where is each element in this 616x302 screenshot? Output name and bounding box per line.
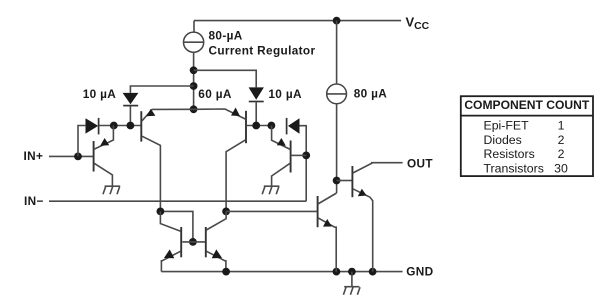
svg-text:Diodes: Diodes [484,133,522,147]
wire IN- line [49,200,306,202]
component count table [461,96,593,176]
svg-text:2: 2 [558,147,565,161]
wire regulator output vertical [193,52,195,109]
node H [302,152,310,160]
node I [333,177,341,185]
node D [110,122,118,130]
svg-text:Current Regulator: Current Regulator [209,43,316,57]
svg-text:1: 1 [558,119,565,133]
node E [126,122,134,130]
node G [268,122,276,130]
transistor Q5 (mirror left NPN) [180,227,182,257]
node center C (60uA) [190,105,198,113]
svg-text:VCC: VCC [406,14,430,32]
svg-text:80-µA: 80-µA [209,28,243,42]
svg-text:COMPONENT COUNT: COMPONENT COUNT [464,98,590,112]
wire mirror left top [160,211,193,242]
wire right base row [246,125,271,127]
node on VCC rail [333,17,341,25]
ground (chassis) left [105,185,121,187]
wire IN+ lead [49,155,93,157]
svg-text:IN−: IN− [24,194,44,208]
transistor Q3 (right upper PNP) [245,111,247,143]
transistor Q7 (driver NPN) [317,196,319,227]
wire source down [336,104,338,193]
wire node A to right diode [194,70,257,87]
svg-text:IN+: IN+ [24,149,44,163]
svg-text:30: 30 [554,161,568,175]
svg-text:Epi-FET: Epi-FET [484,119,530,133]
wire node B to left diode [130,86,193,93]
transistor Q4 (right input PNP) [290,141,292,173]
svg-text:60 µA: 60 µA [198,87,232,101]
svg-text:10 µA: 10 µA [83,87,117,101]
transistor Q1 (left input PNP) [93,141,95,172]
wire mirror base bar [182,241,206,243]
svg-text:10 µA: 10 µA [268,87,302,101]
node F [252,122,260,130]
node rail N [348,268,356,276]
wire IN+ up to clamp diode [78,126,85,157]
diode D1 left 10uA [123,93,139,104]
diode D3 input clamp left [86,118,99,133]
svg-text:2: 2 [558,133,565,147]
wire mirror to driver base [226,210,317,212]
node center B [190,82,198,90]
node rail O [369,268,377,276]
node rail M [333,268,341,276]
svg-text:Resistors: Resistors [484,147,535,161]
current source 80 uA [327,84,347,104]
diode D4 input clamp right [288,118,300,134]
svg-text:80 µA: 80 µA [354,87,388,101]
wire clamp diode to bases [99,125,141,127]
node L mirror bases [189,238,197,246]
node J [157,208,165,216]
node center A [190,66,198,74]
wire GND rail [161,271,402,273]
transistor Q2 (left upper PNP) [140,111,142,141]
wire VCC to current regulator [193,21,195,33]
diode D2 right 10uA [249,87,264,99]
current regulator 80-uA (circle symbol) [184,32,204,52]
wire VCC to source [336,21,338,84]
svg-text:OUT: OUT [407,157,433,171]
wire VCC top rail [194,20,401,22]
node IN+ junction [74,153,82,161]
transistor Q6 (mirror right NPN) [205,227,207,257]
transistor Q8 (output NPN) [351,166,353,197]
node rail Q6 [222,268,230,276]
svg-text:Transistors: Transistors [484,161,544,175]
svg-text:GND: GND [406,265,433,279]
ground (chassis) bottom [351,272,353,287]
node K [222,208,230,216]
ground (chassis) right [264,185,280,187]
